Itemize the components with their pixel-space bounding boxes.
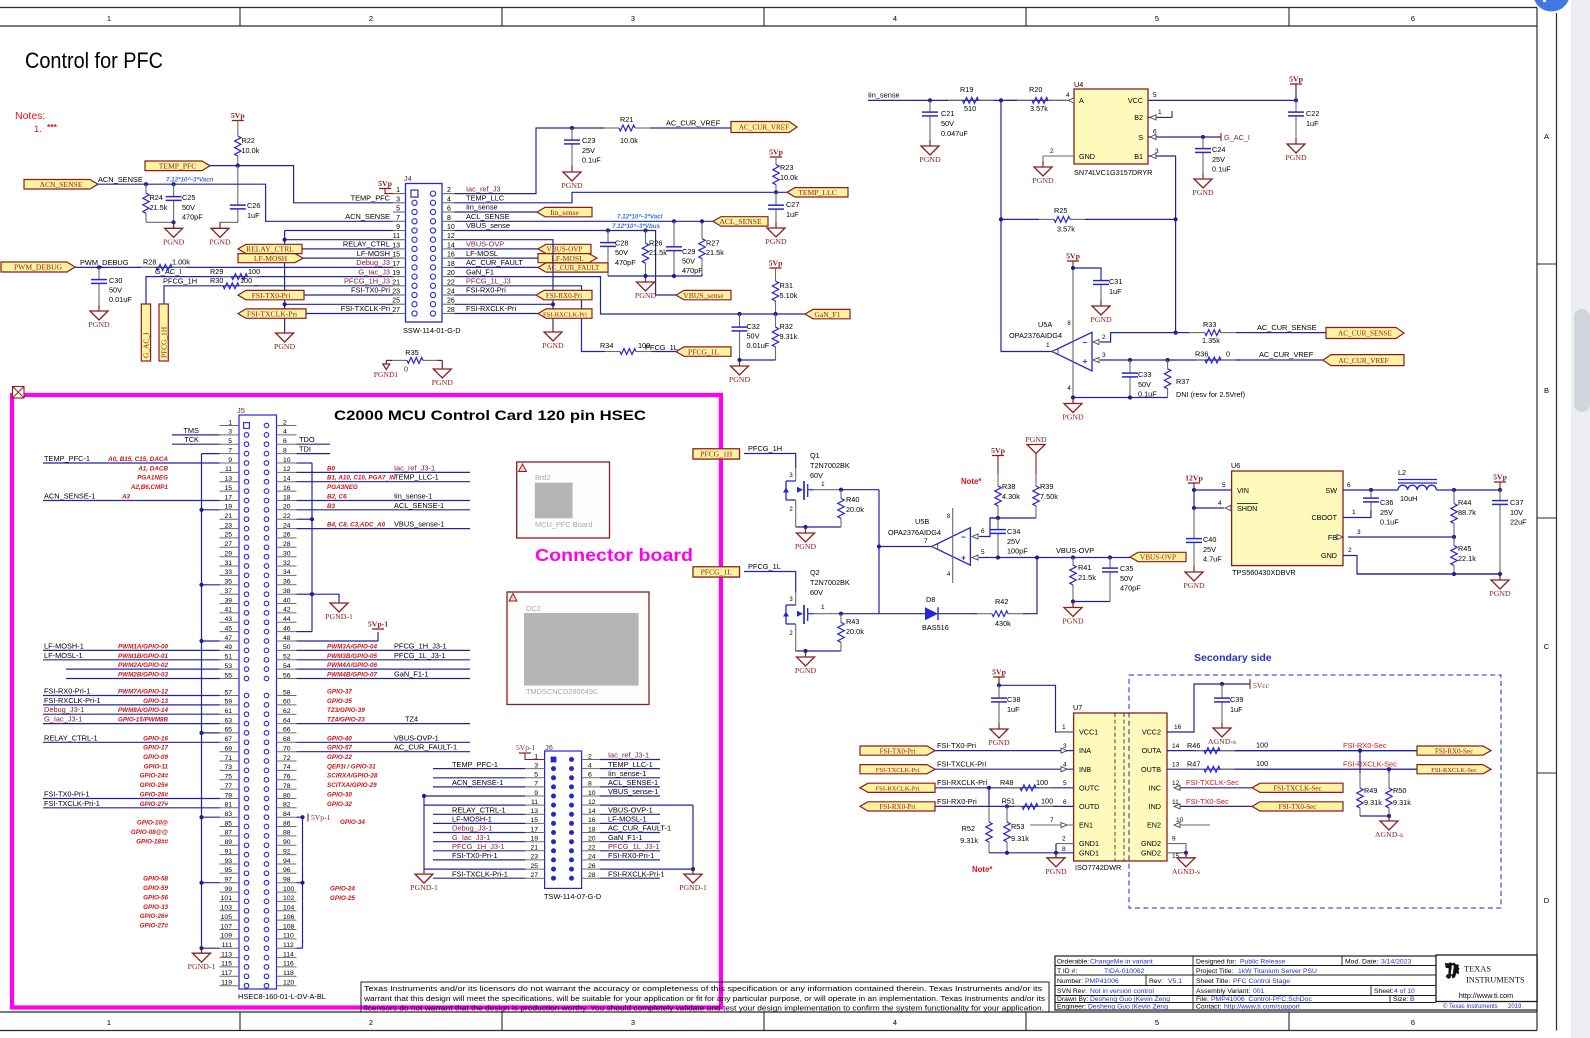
wire J6 pin5 stub net xyxy=(433,777,525,779)
svg-text:92: 92 xyxy=(283,848,291,855)
svg-text:FSI-RXCLK-Pri: FSI-RXCLK-Pri xyxy=(937,778,987,787)
wire J6 pin12 to right ground bus xyxy=(600,804,693,806)
browser floating button xyxy=(1533,0,1570,12)
svg-text:001: 001 xyxy=(1253,988,1265,995)
ground PGND under U5A xyxy=(1072,398,1074,404)
port FSI-TX0-Sec xyxy=(1252,802,1343,811)
node junction R43 xyxy=(839,612,843,616)
svg-text:R27: R27 xyxy=(706,239,719,248)
svg-text:GPIO-59: GPIO-59 xyxy=(143,885,168,892)
connector board magenta outline xyxy=(12,395,721,1008)
svg-text:1uF: 1uF xyxy=(1230,705,1243,714)
svg-text:23: 23 xyxy=(530,854,538,861)
svg-text:0.047uF: 0.047uF xyxy=(941,129,968,138)
svg-text:1: 1 xyxy=(1062,724,1066,731)
svg-text:TEMP_PFC: TEMP_PFC xyxy=(159,162,197,171)
svg-text:71: 71 xyxy=(224,755,232,762)
svg-text:GPIO-25#: GPIO-25# xyxy=(140,782,169,789)
node junction C37 top xyxy=(1498,488,1502,492)
svg-text:G_AC_I: G_AC_I xyxy=(1224,133,1250,142)
svg-text:TEMP_LLC: TEMP_LLC xyxy=(798,188,836,197)
resistor R24 xyxy=(145,184,147,193)
wire G_AC_I net to J4 pin19 xyxy=(146,277,393,304)
power 5Vp-1 bar J6 pin1 xyxy=(519,752,531,754)
svg-text:5: 5 xyxy=(534,772,538,779)
svg-text:23: 23 xyxy=(224,522,232,529)
browser scrollbar thumb xyxy=(1574,309,1590,412)
wire FSI-TXCLK-Pri to J4 pin27 xyxy=(306,313,393,315)
svg-text:11: 11 xyxy=(225,466,232,473)
svg-text:60V: 60V xyxy=(810,471,823,480)
svg-text:PGND: PGND xyxy=(1062,617,1084,626)
node junction C39 xyxy=(1220,682,1224,686)
svg-text:70: 70 xyxy=(283,746,291,753)
svg-text:7.50k: 7.50k xyxy=(1040,492,1058,501)
svg-text:Secondary side: Secondary side xyxy=(1194,652,1272,664)
svg-text:ACN_SENSE-1: ACN_SENSE-1 xyxy=(44,492,95,501)
svg-text:PGND: PGND xyxy=(988,738,1010,747)
svg-text:100pF: 100pF xyxy=(1007,547,1028,556)
capacitor C38 xyxy=(998,685,1000,698)
svg-text:GPIO-16: GPIO-16 xyxy=(143,735,168,742)
svg-text:93: 93 xyxy=(224,858,232,865)
capacitor C24 xyxy=(1202,137,1204,149)
svg-text:GPIO-32: GPIO-32 xyxy=(327,801,352,808)
wire J5 pin19 to ground bus xyxy=(202,509,220,511)
svg-text:1uF: 1uF xyxy=(1306,119,1319,128)
wire Q2 drain to D8 xyxy=(879,613,925,615)
svg-text:50: 50 xyxy=(283,644,291,651)
svg-text:7: 7 xyxy=(924,538,928,545)
svg-text:100: 100 xyxy=(1041,796,1053,805)
node junction C38 xyxy=(997,683,1001,687)
svg-text:50V: 50V xyxy=(182,203,195,212)
svg-text:R22: R22 xyxy=(242,136,255,145)
port PFCG_1L overlay xyxy=(693,567,740,577)
svg-text:GPIO-27#: GPIO-27# xyxy=(140,801,169,808)
svg-text:VBUS-OVP: VBUS-OVP xyxy=(1056,546,1094,555)
svg-text:4 of 10: 4 of 10 xyxy=(1394,988,1415,995)
svg-text:FSI-RX0-Pri: FSI-RX0-Pri xyxy=(937,797,977,806)
wire 5Vp to R22 xyxy=(237,121,239,136)
svg-text:R44: R44 xyxy=(1458,498,1471,507)
ground PGND under C31 xyxy=(1100,300,1102,306)
node GaN_F1 junction C32 xyxy=(737,312,741,316)
svg-text:Iac_ref_J3: Iac_ref_J3 xyxy=(466,184,501,193)
svg-text:13: 13 xyxy=(530,808,538,815)
wire OUTB to FSI-RXCLK-Sec xyxy=(1167,768,1417,770)
svg-text:4.7uF: 4.7uF xyxy=(1203,555,1222,564)
svg-text:LF-MOSL-1: LF-MOSL-1 xyxy=(608,815,647,824)
wire J5 net G_Iac_J3-1 xyxy=(43,723,220,725)
svg-text:3: 3 xyxy=(1102,352,1106,359)
wire J5 pin46 to right bus xyxy=(297,631,313,633)
svg-text:100: 100 xyxy=(1256,741,1268,750)
wire J6 net LF-MOSH-1 xyxy=(433,822,525,824)
svg-text:Notes:: Notes: xyxy=(15,110,45,122)
wire GND1 rail xyxy=(1056,843,1074,845)
wire J5 net GaN_F1-1 xyxy=(297,678,471,680)
svg-text:GPIO-10@: GPIO-10@ xyxy=(137,820,168,827)
U7 EN2 stub pin10 xyxy=(1180,824,1210,826)
svg-text:AC_CUR_VREF: AC_CUR_VREF xyxy=(1259,350,1314,359)
svg-text:GPIO-18##: GPIO-18## xyxy=(136,838,168,845)
resistor R41 xyxy=(1072,558,1074,566)
svg-text:0.1uF: 0.1uF xyxy=(1380,518,1399,527)
capacitor C26 xyxy=(237,166,239,206)
svg-text:PGND: PGND xyxy=(209,237,231,246)
svg-text:D8: D8 xyxy=(926,595,935,604)
svg-text:Desheng Guo |Kevin Zeng: Desheng Guo |Kevin Zeng xyxy=(1090,996,1170,1003)
svg-text:VBUS-OVP-1: VBUS-OVP-1 xyxy=(394,733,439,742)
svg-text:+: + xyxy=(1083,356,1088,366)
svg-text:R37: R37 xyxy=(1176,377,1189,386)
U4 pin 5 VCC wire to 5Vp xyxy=(1148,99,1296,101)
svg-text:5: 5 xyxy=(1155,1018,1159,1027)
svg-text:G_Iac_J3: G_Iac_J3 xyxy=(358,267,390,276)
svg-text:25: 25 xyxy=(224,532,232,539)
node junction SW C36 xyxy=(1369,488,1373,492)
svg-text:B4, C8, C3,ADC_A0: B4, C8, C3,ADC_A0 xyxy=(327,522,386,529)
svg-text:Q2: Q2 xyxy=(810,568,820,577)
svg-text:PWM_DEBUG: PWM_DEBUG xyxy=(80,258,129,267)
wire J5 pin83 to ground bus xyxy=(202,816,220,818)
svg-text:7.12*10^-3*Vacl: 7.12*10^-3*Vacl xyxy=(617,214,663,221)
svg-text:63: 63 xyxy=(224,717,232,724)
svg-text:103: 103 xyxy=(221,905,233,912)
svg-text:2: 2 xyxy=(1102,334,1106,341)
svg-text:PFCG_1H_J3-1: PFCG_1H_J3-1 xyxy=(452,842,505,851)
wire TEMP_PFC net xyxy=(210,166,393,203)
svg-text:2: 2 xyxy=(369,1018,373,1027)
wire U4 GND to PGND xyxy=(1042,156,1044,161)
svg-text:PWM4A/GPIO-06: PWM4A/GPIO-06 xyxy=(327,662,378,669)
svg-text:Iin_sense: Iin_sense xyxy=(868,91,900,100)
svg-text:PGND: PGND xyxy=(765,237,787,246)
svg-text:LF-MOSH: LF-MOSH xyxy=(357,249,390,258)
svg-text:GPIO-35: GPIO-35 xyxy=(327,698,352,705)
svg-text:GPIO-27#: GPIO-27# xyxy=(140,923,169,930)
svg-text:28: 28 xyxy=(447,307,455,314)
svg-text:8: 8 xyxy=(588,781,592,788)
svg-text:24: 24 xyxy=(588,854,596,861)
wire J6 pin9 to left ground bus xyxy=(424,795,525,797)
svg-text:PFCG_1L_J3: PFCG_1L_J3 xyxy=(466,277,511,286)
svg-text:1: 1 xyxy=(821,604,825,611)
TI logo box xyxy=(1436,955,1537,1002)
svg-text:T2N7002BK: T2N7002BK xyxy=(810,578,850,587)
svg-text:18: 18 xyxy=(447,261,455,268)
svg-text:GND2: GND2 xyxy=(1141,848,1161,857)
svg-text:73: 73 xyxy=(224,764,232,771)
svg-text:B: B xyxy=(1544,386,1549,395)
wire J5 net ACN_SENSE-1 xyxy=(43,500,220,502)
svg-text:85: 85 xyxy=(224,820,232,827)
U6 pin 2 GND wire xyxy=(1343,556,1500,575)
svg-text:PGND: PGND xyxy=(795,542,817,551)
svg-text:PGND: PGND xyxy=(1090,315,1112,324)
svg-text:50V: 50V xyxy=(747,332,760,341)
U6 pin 1 CBOOT wire xyxy=(1343,510,1371,518)
svg-text:Iac_ref_J3-1: Iac_ref_J3-1 xyxy=(394,463,435,472)
svg-text:105: 105 xyxy=(221,914,233,921)
capacitor C21 xyxy=(929,100,931,112)
svg-text:A: A xyxy=(1079,96,1084,105)
resistor R45 xyxy=(1453,537,1455,546)
svg-text:VBUS_sense: VBUS_sense xyxy=(683,291,724,300)
svg-text:C26: C26 xyxy=(247,201,260,210)
svg-text:5: 5 xyxy=(1155,14,1159,23)
wire SW to L2 xyxy=(1371,489,1398,491)
wire J6 net Iac_ref_J3-1 xyxy=(600,759,660,761)
svg-text:LF-MOSL: LF-MOSL xyxy=(466,249,498,258)
svg-text:5Vcc: 5Vcc xyxy=(1253,681,1270,690)
capacitor C37 xyxy=(1499,490,1501,501)
svg-text:PGND: PGND xyxy=(1489,589,1511,598)
svg-text:25: 25 xyxy=(392,298,400,305)
svg-text:C31: C31 xyxy=(1109,277,1122,286)
svg-text:PFCG_1L: PFCG_1L xyxy=(645,343,678,352)
svg-text:2: 2 xyxy=(283,419,287,426)
svg-text:12: 12 xyxy=(588,799,596,806)
node junction C35 xyxy=(1108,555,1112,559)
wire J6 pin25 to left bus xyxy=(424,868,525,870)
svg-text:AC_CUR_VREF: AC_CUR_VREF xyxy=(1338,357,1388,365)
wire AC_CUR_FAULT to J4 pin18 xyxy=(455,266,539,268)
svg-text:26: 26 xyxy=(283,532,291,539)
resistor R21 xyxy=(572,127,604,129)
wire C32 R32 ground xyxy=(740,359,776,361)
svg-text:17: 17 xyxy=(530,826,538,833)
svg-text:5Vp-1: 5Vp-1 xyxy=(516,743,536,752)
svg-text:5: 5 xyxy=(1222,482,1226,489)
svg-text:GPIO-24#: GPIO-24# xyxy=(140,773,169,780)
svg-text:10.0k: 10.0k xyxy=(780,173,798,182)
svg-text:Contact:: Contact: xyxy=(1196,1003,1221,1010)
wire VBUS_sense net xyxy=(455,231,677,296)
svg-text:File:: File: xyxy=(1196,996,1209,1003)
svg-text:PWM7A/GPIO-12: PWM7A/GPIO-12 xyxy=(118,689,169,696)
ground PGND-1 under J5 bus xyxy=(201,948,203,953)
svg-text:C37: C37 xyxy=(1510,498,1523,507)
svg-text:2: 2 xyxy=(447,187,451,194)
node junction pin2 net xyxy=(1174,331,1178,335)
svg-text:C28: C28 xyxy=(615,239,628,248)
svg-text:OUTD: OUTD xyxy=(1079,802,1099,811)
svg-text:SVN Rev:: SVN Rev: xyxy=(1057,988,1087,995)
svg-text:FSI-TX0-Sec: FSI-TX0-Sec xyxy=(1279,803,1317,811)
svg-text:PWM4B/GPIO-07: PWM4B/GPIO-07 xyxy=(327,672,378,679)
svg-text:FSI-TXCLK-Sec: FSI-TXCLK-Sec xyxy=(1186,778,1239,787)
wire ACL_SENSE net xyxy=(455,220,714,222)
svg-text:0.01uF: 0.01uF xyxy=(109,295,132,304)
wire J6 net VBUS_sense-1 xyxy=(600,795,660,797)
svg-text:GPIO-15/PWM8B: GPIO-15/PWM8B xyxy=(118,717,168,724)
port PFCG_1H overlay xyxy=(693,449,740,459)
node ACN junction C25 xyxy=(172,182,176,186)
svg-text:C2000 MCU Control Card 120 pin: C2000 MCU Control Card 120 pin HSEC xyxy=(334,407,646,423)
disclaimer text box xyxy=(361,982,1049,1012)
svg-text:2: 2 xyxy=(1062,836,1066,843)
svg-text:74: 74 xyxy=(283,764,291,771)
svg-text:PGND: PGND xyxy=(1032,176,1054,185)
svg-text:18: 18 xyxy=(588,826,596,833)
svg-text:21.5k: 21.5k xyxy=(150,203,168,212)
svg-text:PGND-1: PGND-1 xyxy=(410,883,438,892)
svg-text:80: 80 xyxy=(283,792,291,799)
svg-text:3: 3 xyxy=(396,196,400,203)
wire bottom of C28 R26 C29 R27 xyxy=(608,275,702,277)
ground PGND under C38 xyxy=(998,723,1000,729)
svg-text:117: 117 xyxy=(221,970,232,977)
svg-text:PGND: PGND xyxy=(542,341,564,350)
wire J6 net ACL_SENSE-1 xyxy=(600,786,660,788)
svg-text:Size:: Size: xyxy=(1393,996,1408,1003)
svg-text:41: 41 xyxy=(224,607,232,614)
wire J6 net Iin_sense-1 xyxy=(600,777,660,779)
capacitor C29 xyxy=(672,219,676,223)
svg-text:PGND: PGND xyxy=(1062,413,1084,422)
wire J5 pin97 to ground bus xyxy=(202,882,220,884)
svg-text:10: 10 xyxy=(447,224,455,231)
svg-text:U4: U4 xyxy=(1074,80,1083,89)
svg-text:0.1uF: 0.1uF xyxy=(582,156,601,165)
svg-text:PGND-1: PGND-1 xyxy=(325,612,353,621)
svg-text:40: 40 xyxy=(283,597,291,604)
ground PGND under C26 xyxy=(219,222,221,228)
wire J6 net FSI-RXCLK-Pri-1 xyxy=(600,877,660,879)
svg-text:3: 3 xyxy=(1357,529,1361,536)
svg-text:GPIO-25: GPIO-25 xyxy=(330,895,355,902)
svg-text:22uF: 22uF xyxy=(1510,518,1527,527)
svg-text:54: 54 xyxy=(283,663,291,670)
svg-text:50V: 50V xyxy=(615,248,628,257)
U7 EN1 stub pin7 xyxy=(1030,824,1074,826)
svg-text:4: 4 xyxy=(588,762,592,769)
sheet symbol anchor box xyxy=(13,387,25,399)
node ACN junction R24 xyxy=(144,182,148,186)
svg-text:31: 31 xyxy=(224,560,232,567)
U5B pin 5 wire xyxy=(979,557,1130,559)
capacitor C30 xyxy=(98,267,100,279)
svg-text:58: 58 xyxy=(283,689,291,696)
svg-text:49: 49 xyxy=(224,644,232,651)
svg-text:J5: J5 xyxy=(237,406,245,415)
wire J6 net PFCG_1H_J3-1 xyxy=(433,850,525,852)
port VBUS-OVP mid xyxy=(1130,552,1186,561)
svg-text:430k: 430k xyxy=(995,619,1011,628)
svg-text:TEMP_LLC: TEMP_LLC xyxy=(466,194,505,203)
svg-text:Engineer:: Engineer: xyxy=(1057,1003,1086,1010)
svg-text:13: 13 xyxy=(224,476,232,483)
svg-text:C33: C33 xyxy=(1138,370,1151,379)
svg-text:INC: INC xyxy=(1149,783,1161,792)
wire R33 to AC_CUR_SENSE xyxy=(1250,332,1326,334)
node junction C33 xyxy=(1128,358,1132,362)
svg-text:104: 104 xyxy=(283,905,295,912)
svg-text:8: 8 xyxy=(283,447,287,454)
svg-text:ACN_SENSE-1: ACN_SENSE-1 xyxy=(452,778,503,787)
svg-text:VCC2: VCC2 xyxy=(1142,728,1161,737)
svg-text:FSI-RXCLK-Pri-1: FSI-RXCLK-Pri-1 xyxy=(608,869,665,878)
svg-text:Public Release: Public Release xyxy=(1240,959,1286,966)
capacitor C22 xyxy=(1295,100,1297,112)
svg-text:13: 13 xyxy=(1172,762,1180,769)
svg-text:3: 3 xyxy=(631,14,635,23)
wire J6 net GaN_F1-1 xyxy=(600,841,660,843)
svg-text:15: 15 xyxy=(392,252,400,259)
svg-text:ACL_SENSE-1: ACL_SENSE-1 xyxy=(608,778,658,787)
svg-text:R41: R41 xyxy=(1078,563,1091,572)
svg-text:C39: C39 xyxy=(1230,695,1243,704)
wire J5 TDO xyxy=(297,443,331,445)
svg-text:RELAY_CTRL: RELAY_CTRL xyxy=(343,240,390,249)
svg-text:RELAY_CTRL: RELAY_CTRL xyxy=(246,245,294,254)
svg-text:470pF: 470pF xyxy=(682,266,703,275)
svg-text:5Vp: 5Vp xyxy=(378,179,393,188)
svg-text:C32: C32 xyxy=(747,322,760,331)
svg-text:U7: U7 xyxy=(1073,703,1082,712)
svg-text:OPA2376AIDG4: OPA2376AIDG4 xyxy=(888,528,941,537)
svg-text:BAS516: BAS516 xyxy=(922,623,949,632)
svg-text:R42: R42 xyxy=(995,597,1008,606)
wire J6 pin11 stub net xyxy=(424,804,525,806)
svg-text:7.12*10^-3*Vbus: 7.12*10^-3*Vbus xyxy=(612,223,661,230)
svg-text:LF-MOSL: LF-MOSL xyxy=(551,254,584,263)
svg-text:64: 64 xyxy=(283,717,291,724)
wire J5 net LF-MOSL-1 xyxy=(43,659,220,661)
svg-text:C35: C35 xyxy=(1120,564,1133,573)
svg-text:INB: INB xyxy=(1079,765,1091,774)
wire J5 pin53 xyxy=(66,668,220,670)
svg-text:GPIO-56: GPIO-56 xyxy=(143,894,168,901)
wire PFCG_1H net to J4 pin21 xyxy=(164,286,393,304)
svg-text:G_AC_I: G_AC_I xyxy=(142,332,151,358)
svg-text:PWM2A/GPIO-02: PWM2A/GPIO-02 xyxy=(118,662,169,669)
svg-text:1: 1 xyxy=(821,481,825,488)
svg-text:16: 16 xyxy=(283,485,291,492)
wire J5 pin65 to ground bus xyxy=(202,732,220,734)
svg-text:TEMP_PFC-1: TEMP_PFC-1 xyxy=(452,760,498,769)
wire LF-MOSH to J4 pin15 xyxy=(303,257,393,259)
svg-text:PGND: PGND xyxy=(88,320,110,329)
svg-text:GND: GND xyxy=(1321,551,1337,560)
ground PGND under Q1 xyxy=(805,527,807,533)
wire PWM_DEBUG net to J4 pin17 xyxy=(75,266,393,268)
svg-text:PGA3NEG: PGA3NEG xyxy=(327,484,358,491)
svg-text:50V: 50V xyxy=(1120,574,1133,583)
svg-text:SHDN: SHDN xyxy=(1237,504,1257,513)
svg-text:−: − xyxy=(1083,337,1088,347)
svg-text:8: 8 xyxy=(1062,846,1066,853)
svg-text:59: 59 xyxy=(224,699,232,706)
port FSI-RX0-Sec xyxy=(1417,746,1491,755)
svg-text:GPIO-37: GPIO-37 xyxy=(327,689,352,696)
svg-text:C40: C40 xyxy=(1203,535,1216,544)
svg-text:TEMP_PFC: TEMP_PFC xyxy=(351,194,391,203)
svg-text:GaN_F1: GaN_F1 xyxy=(814,310,840,319)
svg-text:TPS560430XDBVR: TPS560430XDBVR xyxy=(1232,568,1296,577)
node R23 C27 junction xyxy=(774,190,778,194)
svg-text:FSI-TXCLK-Pri-1: FSI-TXCLK-Pri-1 xyxy=(44,799,100,808)
svg-text:10.0k: 10.0k xyxy=(620,136,638,145)
svg-text:32: 32 xyxy=(283,560,291,567)
wire J4 pin9 to bus xyxy=(285,230,393,232)
svg-text:66: 66 xyxy=(283,727,291,734)
wire R36 to AC_CUR_VREF port xyxy=(1248,359,1323,361)
svg-text:B2: B2 xyxy=(1134,113,1143,122)
svg-text:J4: J4 xyxy=(404,174,412,183)
